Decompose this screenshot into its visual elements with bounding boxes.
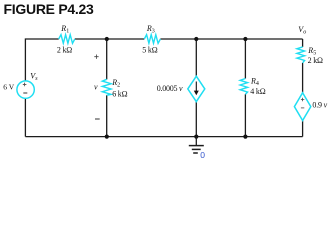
svg-text:6 V: 6 V [3, 82, 14, 91]
resistor R4 zigzag vertical [240, 79, 248, 95]
node dot top R4 [243, 37, 247, 41]
resistor R3 zigzag [144, 35, 160, 44]
wire bottom [25, 136, 302, 138]
node dot bottom R4 [243, 135, 247, 139]
ground [195, 137, 197, 146]
svg-text:Vs: Vs [30, 72, 38, 82]
wire branch dependent current source [195, 39, 197, 137]
resistor R1 zigzag [59, 35, 75, 44]
dependent voltage source diamond 0.9v [294, 93, 310, 121]
node dot top R2 [105, 37, 109, 41]
wire branch R4 [244, 39, 246, 137]
minus mark (v across R2) [95, 118, 100, 120]
svg-text:R1: R1 [60, 24, 69, 35]
svg-text:0: 0 [200, 150, 205, 160]
svg-text:2 kΩ: 2 kΩ [57, 46, 72, 55]
wire top right segment [160, 38, 302, 40]
svg-text:v: v [94, 83, 98, 92]
dependent current source diamond [188, 76, 205, 101]
svg-text:2 kΩ: 2 kΩ [308, 56, 323, 65]
svg-text:R2: R2 [111, 78, 120, 89]
wire branch R2 [106, 39, 108, 137]
svg-text:R5: R5 [307, 46, 316, 57]
svg-text:Vo: Vo [298, 25, 306, 35]
plus mark (v across R2) [94, 55, 98, 59]
svg-text:6 kΩ: 6 kΩ [112, 89, 127, 98]
voltage source Vs circle [17, 81, 34, 98]
svg-text:R3: R3 [146, 24, 155, 35]
svg-text:5 kΩ: 5 kΩ [142, 46, 157, 55]
wire top middle segment [75, 38, 145, 40]
svg-text:FIGURE P4.23: FIGURE P4.23 [4, 1, 94, 17]
svg-text:0.9 v: 0.9 v [312, 101, 327, 110]
svg-text:0.0005 v: 0.0005 v [157, 84, 183, 93]
arrow inside dep current source [195, 82, 197, 92]
wire branch right (R5 / 0.9v source) [302, 39, 304, 137]
resistor R5 zigzag vertical [297, 47, 305, 63]
svg-text:4 kΩ: 4 kΩ [250, 87, 265, 96]
wire left side + top-left segment [25, 39, 58, 137]
svg-text:R4: R4 [250, 76, 259, 87]
node dot top dep source [194, 37, 198, 41]
node dot bottom ground [194, 135, 198, 139]
resistor R2 zigzag vertical [102, 79, 111, 95]
node dot bottom R2 [105, 135, 109, 139]
